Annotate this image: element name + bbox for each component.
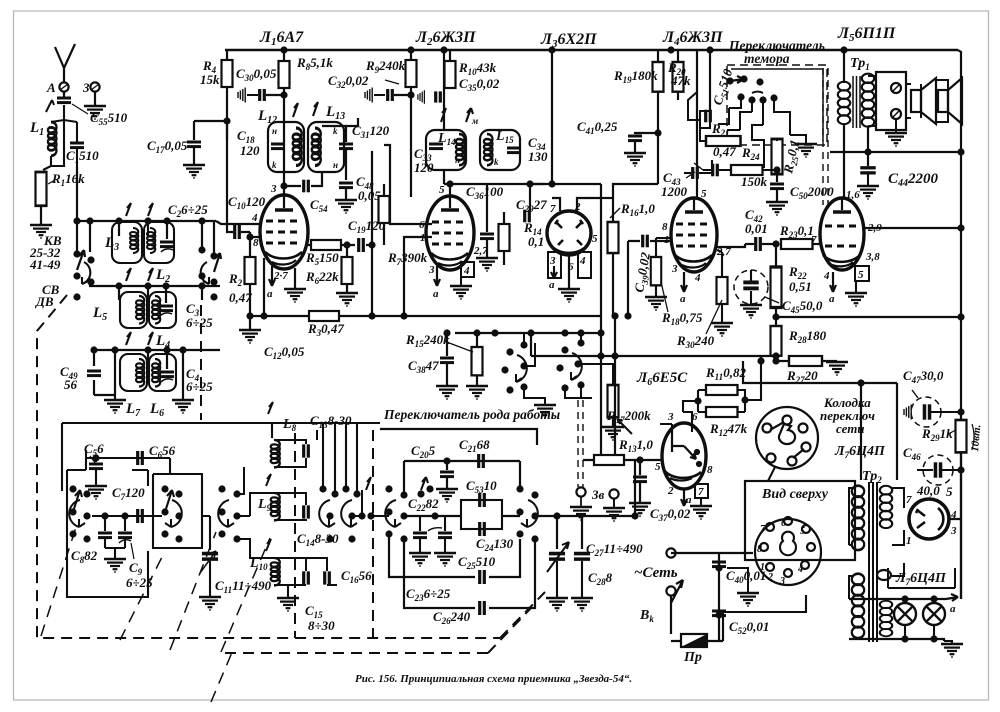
Тр2 core [869, 482, 877, 642]
cathode arrow a Л5 [830, 272, 836, 292]
trimmer arrows И L12 L13 [293, 102, 318, 117]
trimmer arrow И [46, 100, 54, 112]
capacitor C26 240 [480, 601, 485, 615]
resistor R7 390k [379, 196, 390, 223]
mode switch left contacts [385, 485, 407, 542]
trimmer arrows И L14 L15 [441, 108, 473, 122]
svg-text:5: 5 [701, 188, 707, 200]
wire long vertical x372 [371, 151, 373, 316]
svg-text:С51510: С51510 [710, 66, 738, 107]
coil L5 [120, 292, 147, 328]
capacitor C18 120 [271, 144, 285, 149]
wire Л3 top leads [552, 184, 601, 316]
svg-text:40,0: 40,0 [916, 483, 940, 498]
svg-text:3: 3 [671, 263, 678, 275]
switch Вк arrow [671, 580, 683, 603]
band switch left contacts [73, 250, 94, 300]
wires R11 R12 loop [683, 361, 761, 412]
dashed tuning gang frame [37, 295, 545, 653]
svg-text:3: 3 [428, 264, 435, 276]
svg-text:R28180: R28180 [788, 328, 827, 345]
wire R2 to gnd bus [249, 284, 251, 330]
band switch right contacts [198, 246, 217, 300]
capacitor C34 130 [507, 148, 521, 153]
svg-text:Л56П1П: Л56П1П [837, 25, 896, 44]
svg-text:С54: С54 [310, 197, 328, 214]
lamp 1 [904, 599, 906, 603]
wire C5 C6 chain [86, 450, 170, 470]
svg-text:3: 3 [270, 183, 277, 195]
capacitor C29 [529, 184, 531, 212]
cathode arrow a Л4 [681, 272, 687, 292]
svg-text:С520,01: С520,01 [729, 619, 769, 636]
wire Тр2 left connections [849, 488, 897, 639]
capacitor C17 0,05 [193, 121, 195, 140]
fuse Пр [681, 634, 707, 647]
svg-text:С442200: С442200 [888, 171, 939, 189]
svg-text:С288: С288 [588, 570, 613, 587]
pin 7 box Л6 [695, 484, 708, 498]
svg-text:С5310: С5310 [466, 478, 497, 495]
svg-text:R15240k: R15240k [405, 332, 450, 349]
svg-text:С882: С882 [71, 548, 98, 565]
ground bottom right [941, 644, 963, 657]
wire rectifier rail right [949, 452, 961, 599]
wires tembr contacts down [729, 100, 790, 135]
ground under C44 [857, 186, 879, 199]
svg-text:L2: L2 [155, 267, 170, 285]
svg-text:R1043k: R1043k [458, 60, 497, 77]
wire R22 bottom [775, 308, 777, 326]
trimmer arrows И row2 [126, 268, 153, 281]
terminal lower ⊘ [891, 109, 901, 119]
switch arrow left band [77, 250, 85, 270]
wire Л2 anode riser x444 [443, 50, 445, 130]
svg-text:С400,01: С400,01 [726, 568, 766, 585]
capacitor C42 [756, 237, 761, 251]
svg-text:8: 8 [757, 544, 762, 555]
capacitor C39 0,02 [628, 240, 671, 242]
coil L3 [112, 222, 142, 263]
svg-text:С236÷25: С236÷25 [406, 586, 451, 603]
svg-text:~Сеть: ~Сеть [634, 565, 678, 581]
wire lamp return y639 [849, 639, 944, 641]
ground under L10 [287, 585, 289, 597]
capacitor C14 8-30 [304, 505, 309, 518]
resistor R2 0,47 [249, 237, 251, 257]
svg-text:15k: 15k [200, 72, 220, 87]
ground under C36 [476, 258, 498, 271]
pin 5 box Л5 [855, 266, 869, 281]
svg-text:3в: 3в [591, 487, 605, 502]
svg-text:6÷25: 6÷25 [186, 315, 213, 330]
svg-text:0,47: 0,47 [229, 290, 252, 305]
resistor R10 43k [449, 50, 451, 61]
svg-text:С138-30: С138-30 [310, 413, 352, 430]
svg-text:5: 5 [946, 484, 953, 499]
trimmer capacitor C4 6÷25 [160, 372, 174, 382]
capacitor C31 120 [339, 144, 353, 149]
svg-text:Рис. 156. Принципиальная схема: Рис. 156. Принципиальная схема приемника… [355, 673, 632, 685]
wire C26 loop [404, 539, 535, 608]
capacitor C9 6÷25 [124, 516, 126, 531]
wire Л4 anode right to C42 [717, 244, 745, 247]
tube Л7 rectifier [909, 499, 949, 539]
ground under C48 [335, 200, 357, 213]
output box [876, 72, 906, 130]
capacitor C54 [284, 185, 301, 187]
wire switch to R17 [565, 333, 613, 398]
Тр2 secondary windings [880, 486, 892, 528]
svg-text:С7120: С7120 [112, 485, 145, 502]
cathode arrow a Л3 [551, 266, 557, 278]
ground under R17 [602, 427, 624, 440]
Тр1 primary winding [838, 82, 850, 124]
wire grid network Л4 [627, 241, 629, 316]
L-section switch left contacts [218, 485, 240, 542]
mains selector socket circle [756, 407, 818, 469]
svg-text:С26÷25: С26÷25 [168, 202, 208, 219]
svg-text:a: a [686, 494, 692, 506]
capacitor C43 [684, 172, 691, 174]
svg-text:a: a [680, 293, 686, 305]
L-section switch right contacts [319, 485, 360, 542]
cathode arrow a [269, 266, 275, 286]
svg-text:R291k: R291k [921, 426, 953, 443]
resistor R28 180 [771, 326, 782, 356]
svg-text:150k: 150k [741, 174, 768, 189]
svg-text:3: 3 [667, 411, 674, 423]
ground under C38 [436, 386, 458, 399]
terminal upper ⊘ [891, 83, 901, 93]
wire R23 to Л5 pin7 [819, 238, 821, 244]
capacitor C22b [444, 516, 446, 531]
svg-text:R7390k: R7390k [387, 250, 428, 267]
svg-text:a: a [549, 279, 555, 291]
tembr switch contacts [726, 75, 777, 103]
svg-text:Тр1: Тр1 [850, 56, 870, 72]
tube Л3 envelope [547, 211, 591, 255]
svg-text:120: 120 [240, 143, 260, 158]
svg-text:3: 3 [549, 255, 556, 267]
svg-text:0,47: 0,47 [713, 144, 736, 159]
svg-text:R116k: R116k [51, 171, 85, 188]
svg-text:С350,02: С350,02 [459, 76, 500, 93]
coil L2 [144, 222, 174, 263]
wire y356 feed [531, 333, 776, 356]
vid sverhu box [745, 481, 855, 560]
Тр1 core [853, 76, 860, 128]
capacitor C36 [486, 184, 488, 232]
wire mode box top [404, 461, 520, 492]
ground under R15 [466, 386, 488, 399]
capacitor C33 120 [429, 144, 443, 149]
svg-text:8: 8 [662, 221, 668, 233]
ground under Л2 pin4 [460, 277, 462, 285]
wire right vertical rail [958, 50, 961, 599]
svg-text:R2: R2 [228, 271, 243, 288]
wire mid row to C27 C28 [535, 516, 582, 549]
capacitor C50 2000 [770, 184, 784, 189]
capacitor C8 82 [104, 516, 106, 531]
wire Л2 screen y184 to C36 [450, 183, 545, 185]
svg-text:7: 7 [550, 203, 556, 215]
ground under C20 [436, 489, 458, 502]
svg-text:4: 4 [463, 265, 470, 277]
svg-text:н: н [272, 126, 277, 136]
resistor R19 180k [657, 50, 659, 62]
svg-text:Л76Ц4П: Л76Ц4П [834, 444, 886, 460]
svg-text:L13: L13 [325, 104, 345, 122]
svg-text:3,8: 3,8 [865, 251, 880, 263]
svg-text:R19180k: R19180k [613, 68, 658, 85]
speaker 2 [938, 78, 962, 124]
trimmer capacitor C3 6÷25 [159, 306, 173, 316]
terminal Вк [666, 586, 675, 595]
coil L8 [271, 440, 280, 468]
tube Л2 envelope [426, 196, 474, 270]
svg-text:А: А [46, 80, 56, 95]
svg-text:С56: С56 [84, 441, 104, 458]
svg-text:a: a [433, 288, 439, 300]
svg-text:41-49: 41-49 [29, 257, 61, 272]
svg-text:Л76Ц4П: Л76Ц4П [895, 571, 947, 587]
svg-text:a: a [829, 293, 835, 305]
resistor R18 0,75 [651, 257, 661, 285]
svg-text:R230,1: R230,1 [779, 223, 814, 240]
svg-text:R180,75: R180,75 [661, 310, 703, 327]
wire heater bus y599 [849, 598, 946, 600]
pin boxes 3 and 4 Л3 [548, 252, 561, 278]
svg-text:н: н [455, 155, 460, 165]
svg-text:м: м [471, 116, 478, 126]
svg-text:С3847: С3847 [408, 358, 439, 375]
capacitor C28 8 [574, 554, 590, 560]
svg-text:С300,05: С300,05 [236, 66, 277, 83]
svg-text:Л36Х2П: Л36Х2П [540, 31, 597, 50]
speaker 1 [911, 78, 936, 124]
svg-text:С170,05: С170,05 [147, 138, 188, 155]
svg-text:Л46Ж3П: Л46Ж3П [662, 29, 723, 48]
svg-text:С656: С656 [149, 443, 176, 460]
resistor R1 16k [36, 172, 47, 206]
svg-text:a: a [267, 288, 273, 300]
detector switch cluster left [501, 341, 527, 393]
wire R4 to C18 [226, 87, 228, 140]
coil L6 [149, 354, 176, 391]
svg-text:1: 1 [906, 535, 912, 547]
svg-text:L1: L1 [29, 120, 44, 138]
svg-text:R30240: R30240 [676, 333, 715, 350]
svg-text:k: k [494, 157, 499, 167]
terminal З8 right [609, 489, 618, 498]
svg-text:L5: L5 [92, 305, 107, 323]
tube Л4 envelope [671, 198, 717, 272]
svg-text:С2711÷490: С2711÷490 [586, 541, 643, 558]
variable capacitor C27 11÷490 [549, 554, 565, 560]
cathode arrow a Л6 [681, 489, 687, 506]
svg-text:0,51: 0,51 [789, 279, 812, 294]
svg-text:R1247k: R1247k [709, 421, 748, 438]
svg-text:L12: L12 [257, 108, 277, 126]
ground under Л1 [294, 268, 296, 288]
wire right side down [169, 458, 171, 474]
wire C7 row [92, 515, 162, 517]
dashed coupling down to З8 [578, 400, 583, 487]
svg-text:5: 5 [655, 461, 661, 473]
svg-text:L9: L9 [257, 497, 272, 513]
svg-text:С320,02: С320,02 [328, 73, 369, 90]
svg-text:R85,1k: R85,1k [296, 55, 333, 72]
svg-text:R24: R24 [741, 145, 760, 162]
svg-text:6÷25: 6÷25 [186, 379, 213, 394]
svg-text:8: 8 [253, 237, 259, 249]
svg-text:5: 5 [592, 233, 598, 245]
svg-text:130: 130 [528, 149, 548, 164]
ground right of detector switch [535, 398, 545, 404]
svg-text:L15: L15 [495, 129, 514, 145]
resistor R20 47k [677, 50, 679, 62]
svg-text:L8: L8 [282, 417, 297, 433]
svg-text:С2168: С2168 [459, 437, 490, 454]
capacitor C15 8÷30 [304, 571, 309, 584]
svg-text:8: 8 [707, 464, 713, 476]
wire top B+ bus [225, 49, 958, 51]
node junction dots on top bus [280, 46, 287, 53]
svg-text:ДВ: ДВ [35, 294, 54, 309]
wire Тр1 primary bottom to Л5 anode [843, 124, 845, 198]
svg-text:10вт.: 10вт. [969, 424, 983, 452]
svg-text:5: 5 [800, 526, 805, 537]
wire Л4 anode riser [696, 50, 698, 199]
ground under R2 [239, 330, 261, 343]
wire R1 to ground [40, 206, 42, 225]
svg-text:k: k [272, 160, 277, 170]
terminal ~Сеть [666, 548, 675, 557]
resistor R22 0,51 [775, 244, 777, 267]
svg-text:С205: С205 [411, 443, 436, 460]
capacitor C44 2200 [860, 168, 875, 173]
coil L7 [120, 354, 147, 391]
svg-text:7: 7 [906, 494, 912, 506]
svg-text:1,6: 1,6 [846, 189, 860, 201]
svg-text:4: 4 [251, 212, 258, 224]
resistor R29 1k [956, 420, 967, 452]
svg-text:Л16А7: Л16А7 [259, 29, 304, 48]
svg-text:L6: L6 [149, 401, 164, 419]
mode switch right contacts [516, 485, 538, 542]
resistor R8 5,1k [279, 61, 290, 88]
switch arrow bottom-left [73, 490, 82, 512]
tube Л1 envelope [260, 195, 308, 269]
wire pin4 lead [216, 221, 262, 224]
svg-text:5: 5 [858, 269, 864, 281]
ground under C41 [624, 153, 646, 166]
capacitor C55 510 [63, 92, 65, 97]
coil L4 row2 right [149, 292, 176, 328]
capacitor C10 [235, 225, 240, 239]
svg-text:С2282: С2282 [408, 496, 439, 513]
wire socket to vid box [768, 467, 775, 481]
capacitor C1 510 [70, 143, 84, 148]
trimmer arrows И row1 [126, 203, 153, 216]
svg-text:н: н [333, 160, 338, 170]
wire bottom mains to socket [723, 595, 770, 612]
ground after R27 [826, 362, 848, 375]
resistor R27 20 [776, 360, 789, 362]
svg-text:С10120: С10120 [228, 194, 266, 211]
detector switch cluster right [556, 339, 584, 391]
tube Л6 envelope [662, 423, 706, 489]
svg-text:С410,25: С410,25 [577, 119, 618, 136]
svg-text:2: 2 [667, 485, 674, 497]
ground under L7 [104, 400, 126, 413]
ground under R1 [30, 225, 52, 238]
wire ground lead of З [94, 92, 96, 106]
dashed coupling diagonals [41, 524, 270, 702]
ground under left З8 [570, 507, 592, 520]
bottom-left trimmer box [67, 470, 148, 597]
svg-text:3: 3 [82, 80, 90, 95]
capacitor C40 0,01 [712, 562, 726, 567]
wire bus to Тр1 primary [843, 50, 845, 83]
antenna [55, 44, 75, 95]
ground under output box [895, 120, 897, 133]
band switch coil bank rails [74, 221, 220, 400]
svg-text:темора: темора [744, 51, 790, 66]
capacitor C48 0,05 [339, 183, 353, 188]
wire C31 to C48 [345, 150, 347, 180]
wire antenna coil to band switch [76, 166, 78, 222]
wire AVC line y121 [194, 120, 227, 122]
resistor R12 47k [706, 407, 738, 417]
svg-text:R161,0: R161,0 [620, 201, 655, 218]
wire R19 down [657, 133, 659, 184]
wire L1 top loop [43, 105, 77, 170]
svg-text:С4550,0: С4550,0 [782, 298, 823, 315]
resistor R25 0,1 [772, 139, 783, 174]
resistor R5 150 [306, 244, 311, 246]
svg-text:С120,05: С120,05 [264, 344, 305, 361]
node dots coil bank rails [73, 217, 205, 353]
capacitor C37 0,02 [639, 460, 641, 475]
svg-text:Вид сверху: Вид сверху [761, 487, 829, 502]
coil L14 [426, 130, 466, 170]
capacitor C30 0,05 feedthrough [238, 88, 245, 103]
svg-text:4: 4 [823, 270, 830, 282]
svg-text:С36100: С36100 [466, 184, 504, 201]
svg-text:2: 2 [767, 572, 773, 583]
svg-text:L3: L3 [104, 235, 119, 253]
resistor R4 15k [226, 50, 228, 60]
wire speakers top [906, 80, 948, 122]
svg-text:47k: 47k [670, 73, 691, 88]
wire feed left section y423 [62, 423, 380, 494]
wire mains column [671, 553, 723, 641]
svg-text:R5150: R5150 [305, 250, 339, 267]
svg-text:R30,47: R30,47 [307, 321, 344, 338]
wire Л6 grid top [660, 412, 692, 432]
ground tembr mid [790, 135, 806, 143]
wire mode mid row [404, 515, 520, 517]
wire secondary return y152 [830, 126, 961, 166]
svg-text:Пр: Пр [683, 650, 702, 665]
svg-text:С26240: С26240 [433, 609, 471, 626]
wire grid to bus y316 [263, 258, 265, 316]
svg-text:1200: 1200 [661, 184, 688, 199]
capacitor C24 130 [480, 522, 485, 536]
svg-text:k: k [333, 126, 338, 136]
